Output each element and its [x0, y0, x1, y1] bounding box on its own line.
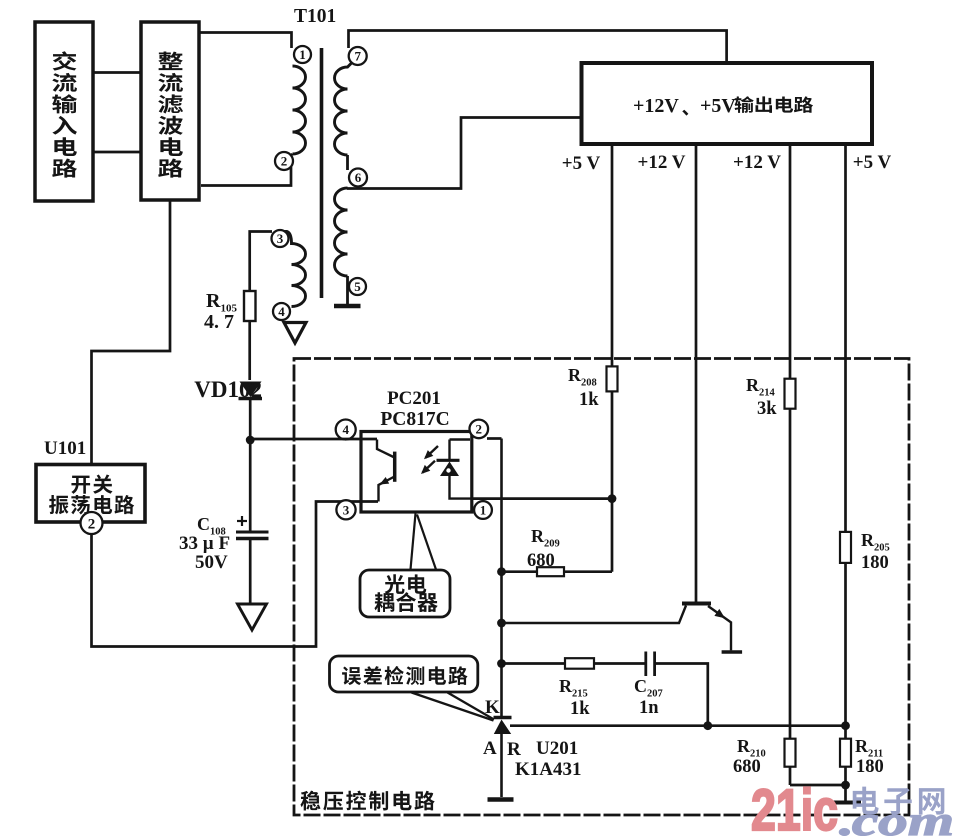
svg-text:680: 680 [733, 757, 761, 777]
label A [483, 738, 497, 759]
node A junction dot [246, 436, 255, 445]
watermark 电子网 [853, 787, 945, 815]
svg-text:1k: 1k [579, 390, 599, 410]
node F junction dot [497, 567, 506, 576]
wire node E to ground [844, 785, 847, 801]
label +12 V second [733, 152, 781, 173]
label 稳压控制电路 [300, 791, 434, 811]
value 50V [195, 552, 228, 573]
wire +12V rail to R214 [789, 144, 792, 379]
wire node H to R215 [502, 662, 566, 665]
svg-text:4. 7: 4. 7 [204, 311, 234, 333]
block +12V +5V output circuit [582, 63, 873, 144]
watermark 21ic [751, 778, 838, 836]
stabilized voltage control circuit dashed box [294, 359, 909, 816]
value 1k [579, 390, 599, 410]
value 33uF [179, 533, 230, 554]
svg-text:K: K [485, 697, 500, 718]
T101 pin 5 [349, 278, 366, 295]
label R208 [568, 365, 597, 389]
wire C108 to ground [249, 540, 252, 603]
label R209 [531, 526, 560, 550]
wire R208 to node B [611, 391, 614, 498]
shunt regulator U201 K1A431 [494, 718, 512, 735]
resistor R214 [785, 379, 796, 409]
svg-text:K1A431: K1A431 [515, 759, 582, 780]
value 180 R211 [856, 757, 884, 777]
svg-text:4: 4 [278, 304, 285, 319]
wire R211 to bottom node [844, 767, 847, 785]
svg-text:T101: T101 [294, 6, 336, 27]
label K [485, 697, 500, 718]
node B junction dot [608, 494, 617, 503]
svg-text:VD102: VD102 [194, 377, 262, 402]
optocoupler light arrows [421, 446, 438, 474]
pointer lines to 光电耦合器 label [411, 514, 437, 570]
wire U201 anode to ground [500, 734, 503, 797]
svg-text:PC817C: PC817C [380, 409, 449, 430]
svg-text:U201: U201 [536, 738, 578, 759]
label +5 V second [853, 152, 892, 173]
U101 pin 2 [81, 512, 103, 534]
svg-text:7: 7 [354, 49, 361, 64]
optocoupler U201 PC817 box [361, 432, 472, 513]
wire rectifier bottom to U101 [92, 200, 171, 465]
wire VD102 to node A [249, 399, 252, 440]
svg-text:1n: 1n [639, 698, 659, 718]
label VD102 [194, 377, 262, 402]
label U201 [536, 738, 578, 759]
T101 primary winding pins 1-2 [287, 66, 306, 158]
wire node B down to R209 [611, 499, 614, 572]
T101 pin 6 [349, 169, 367, 187]
ground triangle below T101 pin 4 [284, 323, 306, 344]
svg-text:1: 1 [299, 47, 306, 62]
wire node D to R211 [844, 726, 847, 739]
wire rectifier output to T101 pin1 [199, 33, 292, 49]
value 1n [639, 698, 659, 718]
wire R205 to node D [844, 563, 847, 726]
wire reference line [510, 724, 846, 727]
wire R209 to node B line [564, 570, 612, 573]
T101 pin 1 [294, 46, 311, 63]
value 680 R209 [527, 551, 555, 571]
label C108 [197, 514, 226, 538]
svg-text:180: 180 [861, 553, 889, 573]
T101 pin 7 [349, 47, 367, 65]
wire +5V rail to R208 [611, 144, 614, 366]
node I junction dot [703, 721, 712, 730]
label U101 [44, 438, 86, 459]
resistor R208 [607, 366, 618, 391]
pointer lines to K1A431 [412, 693, 495, 721]
resistor R205 [840, 532, 851, 563]
svg-text:33 µ F: 33 µ F [179, 533, 230, 554]
value 680 R210 [733, 757, 761, 777]
wire R210 to bottom node [789, 767, 792, 785]
transistor Q201 [682, 604, 731, 651]
label R105 [206, 290, 237, 315]
block switching oscillator U101 开关振荡电路 [36, 465, 145, 523]
T101 pin 4 [273, 303, 290, 320]
resistor R105 [244, 291, 256, 321]
svg-text:+12 V: +12 V [638, 152, 686, 173]
resistor R209 [537, 567, 564, 576]
transformer T101 core [320, 48, 324, 298]
svg-text:180: 180 [856, 757, 884, 777]
watermark .com [837, 799, 954, 836]
callout box 误差检测电路 [330, 656, 478, 692]
block rectifier filter circuit 整流滤波电路 [141, 22, 199, 200]
value 4.7 [204, 311, 234, 333]
ground bar bottom right [833, 801, 861, 805]
wire node F to R209 [502, 570, 538, 573]
wire node G to Q201 base [502, 606, 687, 624]
svg-text:2: 2 [476, 422, 483, 437]
svg-text:1k: 1k [570, 699, 590, 719]
node E junction dot [841, 781, 850, 790]
label R215 [559, 676, 588, 700]
wire AC-to-rectifier upper [93, 71, 141, 74]
svg-text:21ic: 21ic [751, 778, 838, 836]
wire node A to C108 [249, 440, 252, 531]
wire T101 pin3 to R105 [250, 232, 272, 292]
svg-text:4: 4 [342, 422, 349, 437]
optocoupler pin 2 [470, 420, 489, 439]
value 1k R215 [570, 699, 590, 719]
T101 pin 3 [272, 230, 289, 247]
svg-text:2: 2 [88, 516, 96, 532]
svg-text:+5 V: +5 V [562, 153, 601, 174]
optocoupler pin 1 [474, 501, 492, 519]
wire T101 pin7 to output block top [349, 31, 727, 64]
wire node A to optocoupler pin4 [250, 438, 377, 441]
resistor R211 [840, 739, 851, 767]
svg-text:A: A [483, 738, 497, 759]
label R214 [746, 375, 776, 399]
svg-text:2: 2 [281, 154, 288, 169]
svg-text:+12 V: +12 V [733, 152, 781, 173]
wire +12V rail to Q201 collector [695, 144, 698, 602]
T101 auxiliary winding pins 3-4 [281, 232, 306, 307]
wire R105 to VD102 [248, 321, 251, 380]
capacitor C108 [236, 532, 269, 539]
svg-text:50V: 50V [195, 552, 228, 573]
optocoupler pin 4 [336, 420, 356, 440]
resistor R210 [785, 739, 796, 767]
value 3k [757, 399, 777, 419]
label R211 [855, 736, 883, 760]
node H junction dot [497, 659, 506, 668]
wire bottom node link [790, 784, 846, 787]
callout box 光电耦合器 [360, 570, 450, 617]
T101 pin 2 [275, 152, 293, 170]
svg-text:1: 1 [480, 503, 487, 518]
label +5 V first [562, 153, 601, 174]
wire AC-to-rectifier lower [93, 151, 141, 154]
T101 secondary winding pins 6-5 [335, 188, 348, 276]
optocoupler phototransistor [377, 440, 395, 502]
block AC input circuit 交流输入电路 [35, 22, 93, 201]
transformer T101 label [294, 6, 336, 27]
svg-text:+5 V: +5 V [853, 152, 892, 173]
capacitor C207 [646, 652, 655, 677]
wire C207 to reference line [655, 664, 708, 726]
wire U101 pin2 to optocoupler pin3 [92, 502, 379, 647]
label PC201 [387, 388, 441, 409]
optocoupler LED [437, 440, 472, 499]
T101 secondary winding pins 7-6 [335, 62, 353, 170]
svg-text:.com: .com [837, 799, 954, 836]
svg-text:6: 6 [355, 170, 362, 185]
wire K line [500, 439, 503, 718]
resistor R215 [565, 658, 594, 669]
ground bar below Q201 emitter [722, 650, 743, 654]
svg-text:3: 3 [343, 503, 350, 518]
svg-text:5: 5 [354, 279, 361, 294]
label K1A431 [515, 759, 582, 780]
wire R214 to R210 [789, 409, 792, 739]
wire optocoupler pin2 to K line [487, 437, 502, 440]
label R210 [737, 736, 766, 760]
svg-text:3: 3 [277, 231, 284, 246]
diode VD102 [239, 382, 263, 399]
value 180 R205 [861, 553, 889, 573]
svg-text:PC201: PC201 [387, 388, 441, 409]
node G junction dot [497, 619, 506, 628]
label PC817C [380, 409, 449, 430]
wire R215 to C207 [594, 662, 645, 665]
label +12 V first [638, 152, 686, 173]
svg-text:R: R [507, 739, 521, 760]
svg-text:+5V: +5V [700, 95, 736, 117]
wire optocoupler pin1 to node B [471, 497, 612, 500]
capacitor C108 plus sign [237, 516, 247, 526]
ground triangle below C108 [238, 604, 267, 630]
optocoupler pin 3 [336, 500, 355, 519]
ground bar below U201 [488, 797, 514, 802]
svg-text:U101: U101 [44, 438, 86, 459]
label R205 [861, 530, 890, 554]
wire T101 pin2 to rectifier [201, 167, 291, 186]
wire +5V rail to R205 [844, 144, 847, 532]
label C207 [634, 676, 663, 700]
wire T101 pin6 to output block [347, 118, 582, 189]
ground bar below T101 pin 5 [334, 276, 361, 306]
node D junction dot [841, 721, 850, 730]
label R terminal [507, 739, 521, 760]
svg-text:+12V: +12V [633, 95, 679, 117]
svg-text:680: 680 [527, 551, 555, 571]
svg-text:3k: 3k [757, 399, 777, 419]
